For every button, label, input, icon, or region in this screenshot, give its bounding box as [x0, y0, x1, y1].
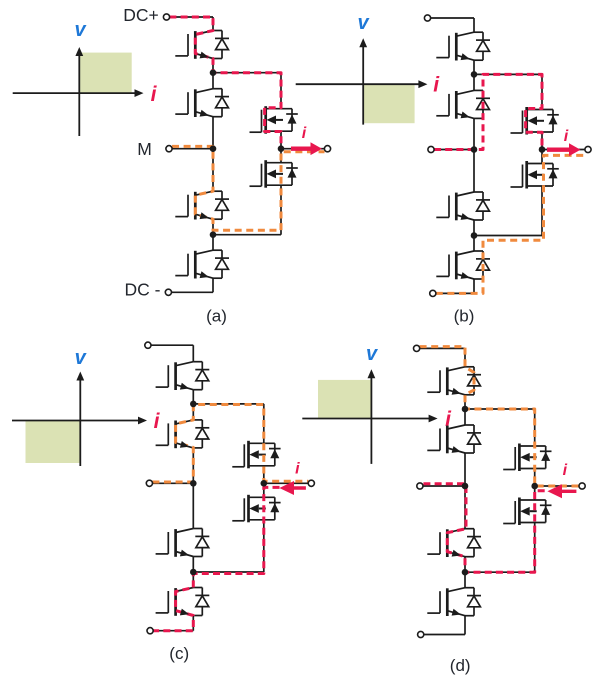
- svg-text:(a): (a): [206, 307, 227, 326]
- M terminal (a): [166, 146, 172, 152]
- MOSFET S6 with body diode (d): [503, 498, 551, 526]
- IGBT T3 with antiparallel diode (c): [156, 529, 210, 557]
- svg-text:i: i: [302, 125, 307, 142]
- orange current path (d): [420, 347, 579, 486]
- wire M-T3 (b): [473, 150, 475, 193]
- node1 junction (b): [471, 71, 478, 78]
- wire S5-output (d): [534, 469, 536, 487]
- DC- terminal (a): [165, 289, 171, 295]
- wire output-S6 (c): [263, 483, 265, 497]
- wire node1-T2 (d): [464, 409, 466, 425]
- DC- terminal (b): [430, 290, 436, 296]
- node2 junction (c): [190, 569, 197, 576]
- wire T4-DC- (a): [212, 278, 214, 292]
- output terminal (a): [324, 146, 330, 152]
- wire DC- terminal to leg (d): [424, 634, 465, 636]
- IGBT T4 with antiparallel diode (a): [175, 250, 229, 278]
- node1 junction (c): [190, 401, 197, 408]
- wire DC- terminal to leg (a): [171, 291, 213, 293]
- DC+ terminal (b): [424, 15, 430, 21]
- output node junction (b): [539, 146, 546, 153]
- M-node junction (c): [190, 480, 197, 487]
- wire S6-branch bottom (a): [280, 185, 282, 235]
- svg-text:M: M: [137, 139, 152, 159]
- green operating-quadrant box (a): [79, 53, 131, 94]
- svg-text:v: v: [75, 347, 88, 369]
- node2 junction (d): [462, 569, 469, 576]
- output terminal (b): [585, 146, 591, 152]
- wire node1-T2 (a): [212, 73, 214, 89]
- DC+ terminal (c): [145, 342, 151, 348]
- node2 junction (a): [210, 231, 217, 238]
- wire T3-node2 (b): [473, 220, 475, 236]
- node2 junction (b): [471, 232, 478, 239]
- DC+ terminal (d): [414, 345, 420, 351]
- wire T1-node1 (d): [464, 395, 466, 409]
- green operating-quadrant box (d): [318, 380, 371, 419]
- M-node junction (d): [462, 483, 469, 490]
- MOSFET S5 with body diode (d): [503, 444, 551, 472]
- wire DC+ terminal to leg (d): [420, 347, 465, 349]
- wire DC- terminal to leg (b): [436, 292, 474, 294]
- orange current path (a): [172, 146, 325, 230]
- wire T3-node2 (c): [192, 557, 194, 573]
- IGBT T1 with antiparallel diode (d): [427, 367, 481, 395]
- wire node2 to clamp branch (d): [465, 571, 535, 573]
- wire S5-output (b): [541, 132, 543, 150]
- wire T4-DC- (b): [473, 279, 475, 293]
- IGBT T2 with antiparallel diode (b): [436, 90, 490, 118]
- wire T1-node1 (b): [473, 60, 475, 74]
- svg-text:v: v: [366, 343, 379, 365]
- wire T1-node1 (c): [192, 390, 194, 404]
- IGBT T3 with antiparallel diode (d): [427, 529, 481, 557]
- wire output-S6 (b): [541, 150, 543, 164]
- svg-text:(d): (d): [450, 656, 471, 675]
- svg-text:v: v: [74, 19, 87, 41]
- svg-text:DC -: DC -: [125, 279, 161, 299]
- output current arrow (b): [547, 143, 581, 156]
- red current path (a): [169, 17, 281, 149]
- wire leg top (c): [192, 345, 194, 362]
- svg-text:v: v: [357, 12, 370, 34]
- wire branch top (d): [534, 409, 536, 446]
- v-i axes (d): [302, 369, 437, 464]
- IGBT T3 with antiparallel diode (a): [175, 191, 229, 219]
- wire node2-T4 (d): [464, 572, 466, 588]
- green operating-quadrant box (b): [363, 84, 414, 123]
- red current path (c): [153, 487, 279, 630]
- IGBT T4 with antiparallel diode (c): [156, 588, 210, 616]
- wire branch top (c): [263, 404, 265, 443]
- device arrowheads and diode marks (c): [180, 383, 279, 616]
- wire DC- terminal to leg (c): [153, 630, 193, 632]
- node1 junction (d): [462, 406, 469, 413]
- wire branch top (a): [280, 73, 282, 109]
- v-i axes (b): [296, 38, 428, 124]
- wire leg top (d): [464, 348, 466, 366]
- DC- terminal (d): [418, 631, 424, 637]
- device arrowheads and diode marks (b): [461, 53, 558, 279]
- MOSFET S6 with body diode (a): [250, 160, 298, 188]
- MOSFET S5 with body diode (b): [511, 107, 559, 135]
- M terminal (d): [417, 483, 423, 489]
- output terminal (d): [579, 483, 585, 489]
- wire output-S6 (a): [280, 149, 282, 163]
- M terminal (c): [146, 480, 152, 486]
- wire M terminal (b): [434, 149, 474, 151]
- green operating-quadrant box (c): [26, 421, 81, 464]
- wire T2-M (a): [212, 117, 214, 149]
- wire S6-branch bottom (d): [534, 523, 536, 573]
- wire T4-DC- (c): [192, 616, 194, 631]
- wire leg top (b): [473, 18, 475, 32]
- wire leg top (a): [212, 17, 214, 31]
- svg-text:i: i: [564, 128, 569, 145]
- wire DC+ terminal to leg (b): [431, 17, 475, 19]
- output current arrow (d): [547, 484, 576, 498]
- IGBT T1 with antiparallel diode (a): [175, 31, 229, 59]
- DC- terminal (c): [147, 628, 153, 634]
- DC+ terminal (a): [163, 14, 169, 20]
- wire branch top (b): [541, 74, 543, 109]
- MOSFET S6 with body diode (b): [511, 161, 559, 189]
- device arrowheads and diode marks (d): [452, 388, 551, 616]
- wire node1 to clamp branch (d): [465, 408, 535, 410]
- wire node2 to clamp branch (c): [193, 571, 263, 573]
- wire DC+ terminal to leg (a): [170, 16, 214, 18]
- output current arrow (a): [291, 142, 322, 155]
- device arrowheads and diode marks (a): [200, 52, 297, 279]
- IGBT T3 with antiparallel diode (b): [436, 192, 490, 220]
- IGBT T1 with antiparallel diode (b): [436, 32, 490, 60]
- IGBT T4 with antiparallel diode (b): [436, 251, 490, 279]
- wire node2 to clamp branch (a): [213, 234, 281, 236]
- MOSFET S5 with body diode (c): [232, 441, 280, 469]
- wire T3-node2 (d): [464, 557, 466, 573]
- MOSFET S6 with body diode (c): [232, 495, 280, 523]
- wire M-T3 (a): [212, 149, 214, 192]
- wire node2-T4 (c): [192, 572, 194, 588]
- wire DC+ terminal to leg (c): [151, 344, 193, 346]
- M-node junction (b): [471, 146, 478, 153]
- output node junction (a): [278, 145, 285, 152]
- svg-text:i: i: [295, 461, 300, 478]
- wire output-S6 (d): [534, 486, 536, 500]
- svg-text:i: i: [563, 462, 568, 479]
- wire node1-T2 (c): [192, 404, 194, 420]
- output current arrow (c): [279, 481, 306, 495]
- svg-text:(c): (c): [169, 644, 189, 663]
- red current path (d): [423, 484, 547, 572]
- v-i axes (c): [12, 372, 147, 467]
- IGBT T2 with antiparallel diode (a): [175, 89, 229, 117]
- wire T1-node1 (a): [212, 59, 214, 73]
- output node junction (d): [531, 483, 538, 490]
- wire S5-output (c): [263, 466, 265, 484]
- wire node2-T4 (b): [473, 236, 475, 252]
- wire M-T3 (c): [192, 483, 194, 528]
- wire node2-T4 (a): [212, 235, 214, 251]
- wire node1 to clamp branch (c): [193, 403, 263, 405]
- MOSFET S5 with body diode (a): [250, 106, 298, 134]
- wire M terminal (a): [172, 148, 213, 150]
- output terminal (c): [308, 480, 314, 486]
- wire T4-DC- (d): [464, 616, 466, 635]
- M-node junction (a): [210, 145, 217, 152]
- IGBT T1 with antiparallel diode (c): [156, 362, 210, 390]
- wire S6-branch bottom (c): [263, 520, 265, 572]
- wire T2-M (d): [464, 453, 466, 486]
- orange current path (b): [436, 155, 585, 293]
- svg-text:DC+: DC+: [123, 5, 159, 25]
- node1 junction (a): [210, 69, 217, 76]
- wire node1 to clamp branch (a): [213, 72, 281, 74]
- wire node2 to clamp branch (b): [474, 235, 542, 237]
- wire M-T3 (d): [464, 486, 466, 529]
- wire output node to terminal (c): [264, 482, 309, 484]
- wire T3-node2 (a): [212, 219, 214, 235]
- output node junction (c): [261, 480, 268, 487]
- svg-text:(b): (b): [454, 307, 475, 326]
- wire node1-T2 (b): [473, 74, 475, 90]
- orange current path (c): [152, 405, 308, 483]
- wire output node to terminal (a): [281, 148, 325, 150]
- wire T2-M (b): [473, 118, 475, 149]
- wire S5-output (a): [280, 131, 282, 149]
- IGBT T2 with antiparallel diode (d): [427, 425, 481, 453]
- wire M terminal (d): [423, 485, 465, 487]
- M terminal (b): [428, 146, 434, 152]
- wire output node to terminal (d): [535, 485, 579, 487]
- wire output node to terminal (b): [542, 149, 585, 151]
- v-i axes (a): [13, 47, 144, 136]
- IGBT T4 with antiparallel diode (d): [427, 588, 481, 616]
- wire S6-branch bottom (b): [541, 186, 543, 236]
- wire T2-M (c): [192, 448, 194, 483]
- wire node1 to clamp branch (b): [474, 73, 542, 75]
- red current path (b): [434, 74, 542, 149]
- wire M terminal (c): [152, 482, 193, 484]
- IGBT T2 with antiparallel diode (c): [156, 420, 210, 448]
